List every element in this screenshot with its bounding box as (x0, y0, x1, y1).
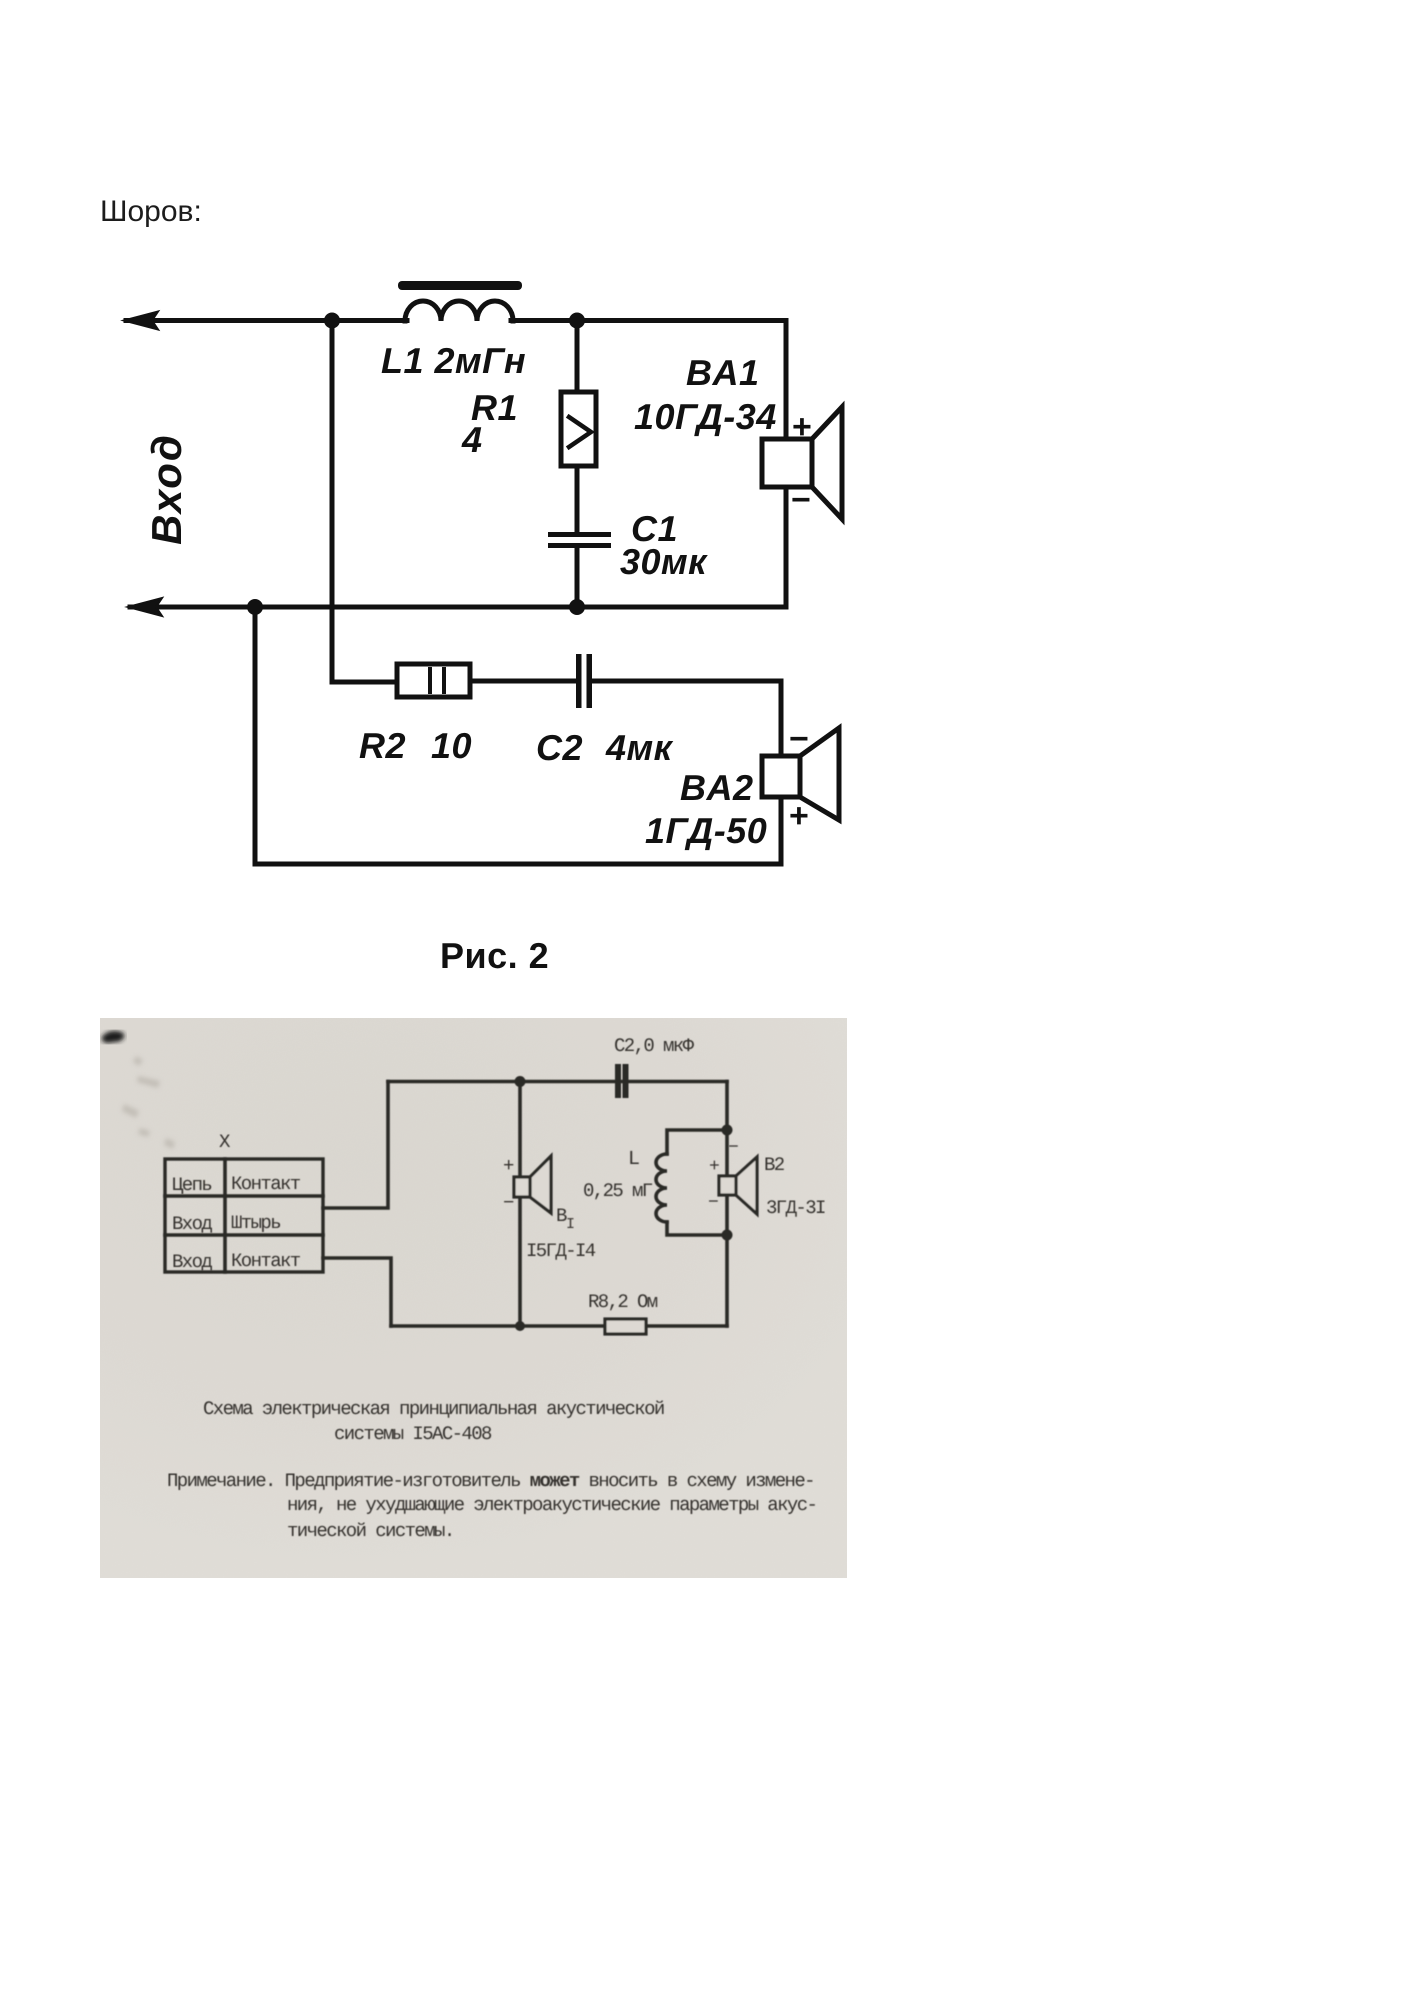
wire R2 to C2 (470, 679, 576, 684)
svg-text:−: − (728, 1138, 738, 1158)
stain smudges (122, 1056, 175, 1149)
resistor R2 body (397, 664, 470, 697)
svg-text:Вход: Вход (143, 433, 190, 545)
svg-text:системы I5АС-408: системы I5АС-408 (334, 1423, 492, 1445)
wire bottom input line (130, 605, 786, 610)
svg-text:B2: B2 (764, 1154, 785, 1176)
node junction dot bottom B1 (515, 1321, 525, 1331)
svg-text:Контакт: Контакт (231, 1173, 301, 1195)
loudspeaker BA1 body (762, 439, 812, 487)
wire top bus (388, 1080, 727, 1084)
connector table X outer (165, 1159, 323, 1272)
loudspeaker B1 horn (530, 1156, 551, 1213)
inductor L winding (656, 1154, 667, 1222)
svg-text:Вход: Вход (172, 1251, 212, 1273)
schematic 1: crossover Рис. 2 (100, 270, 870, 980)
wire bottom bus (391, 1324, 605, 1328)
svg-text:Схема электрическая принципиал: Схема электрическая принципиальная акуст… (203, 1398, 664, 1420)
wire BA2 right vertical (779, 681, 784, 864)
svg-text:Вход: Вход (172, 1213, 212, 1235)
svg-text:3ГД-3I: 3ГД-3I (766, 1197, 825, 1219)
wire B1 vertical (518, 1082, 522, 1327)
loudspeaker BA2 body (762, 756, 800, 797)
svg-text:+: + (709, 1157, 719, 1177)
resistor R8,2 body (605, 1319, 646, 1334)
svg-text:I: I (566, 1216, 574, 1233)
connector table column divider (223, 1159, 227, 1272)
wire right vertical (725, 1082, 729, 1327)
svg-text:L1 2мГн: L1 2мГн (381, 340, 526, 381)
svg-text:L: L (628, 1148, 639, 1171)
node junction dot inductor bottom (722, 1230, 733, 1241)
svg-text:30мк: 30мк (620, 541, 708, 582)
wire bottom bus right of R (646, 1324, 727, 1328)
capacitor C2,0 plates (615, 1064, 621, 1098)
svg-text:R8,2 Ом: R8,2 Ом (588, 1291, 658, 1313)
svg-text:C2: C2 (536, 727, 583, 768)
node junction dot bottom-left (247, 599, 263, 615)
wire lower branch from left vertical to R2 (332, 680, 397, 685)
svg-text:10ГД-34: 10ГД-34 (634, 396, 777, 437)
svg-text:BA2: BA2 (680, 767, 754, 808)
wire left lower riser from connector contact row (323, 1258, 391, 1326)
wire bottom return line (255, 862, 781, 867)
svg-text:тической системы.: тической системы. (287, 1520, 454, 1542)
node input top arrow (124, 312, 158, 330)
node junction dot at B1 top (515, 1076, 526, 1087)
heading text (100, 197, 202, 227)
node junction dot inductor top (722, 1125, 733, 1136)
loudspeaker B2 horn (736, 1157, 757, 1214)
node junction dot bottom-center (569, 599, 585, 615)
svg-text:ния, не ухудшающие электроакус: ния, не ухудшающие электроакустические п… (287, 1494, 816, 1516)
svg-text:Рис. 2: Рис. 2 (440, 935, 549, 976)
svg-text:1ГД-50: 1ГД-50 (645, 810, 767, 851)
svg-text:−: − (708, 1193, 718, 1213)
svg-text:R2: R2 (359, 725, 406, 766)
svg-text:+: + (792, 408, 812, 446)
node junction dot top-center (569, 313, 585, 329)
svg-text:Контакт: Контакт (231, 1250, 301, 1272)
svg-text:10: 10 (431, 725, 472, 766)
wire top input line left part (126, 318, 407, 323)
inductor L1 core bar (398, 281, 522, 290)
svg-text:C2,0 мкФ: C2,0 мкФ (614, 1035, 695, 1057)
svg-text:I5ГД-I4: I5ГД-I4 (526, 1240, 596, 1262)
svg-text:0,25 мГ: 0,25 мГ (583, 1180, 653, 1202)
svg-text:BA1: BA1 (686, 352, 760, 393)
wire left bottom vertical (253, 607, 258, 864)
svg-text:Примечание. Предприятие-изгото: Примечание. Предприятие-изготовитель мож… (167, 1470, 814, 1492)
loudspeaker BA1 horn (812, 407, 842, 519)
wire right side of BA1 loop (784, 321, 789, 608)
wire C2 to BA2 (592, 679, 781, 684)
wire C1 to bottom (575, 548, 580, 607)
svg-text:Цепь: Цепь (172, 1174, 211, 1196)
capacitor C1 plates (548, 532, 611, 537)
connector table row line 1 (165, 1194, 323, 1198)
wire R1 to C1 (575, 466, 580, 532)
photo background (100, 1018, 847, 1578)
svg-text:+: + (503, 1155, 514, 1177)
resistor R1 chevron mark (569, 417, 591, 447)
svg-text:4мк: 4мк (605, 727, 674, 768)
svg-text:+: + (789, 797, 809, 835)
wire left riser from connector pin row (323, 1082, 388, 1209)
loudspeaker BA2 horn (800, 728, 839, 820)
stain ink blob top-left (102, 1031, 125, 1043)
resistor R2 inner ticks (428, 669, 432, 692)
loudspeaker B1 body (514, 1177, 530, 1197)
capacitor C2 plates (576, 654, 582, 708)
loudspeaker B2 body (719, 1176, 736, 1195)
node junction dot top-left (324, 313, 340, 329)
inductor L branch bottom (667, 1222, 727, 1235)
schematic 2: scanned photo 15АС-408 (100, 1018, 847, 1578)
wire from node to R1 (575, 321, 580, 393)
connector table row line 2 (165, 1233, 323, 1237)
node input bottom arrow (128, 598, 162, 616)
inductor L branch top (667, 1130, 727, 1154)
wire left branch vertical (to R2 row) (330, 321, 335, 683)
inductor L1 winding (405, 301, 513, 321)
resistor R1 body (561, 392, 596, 466)
svg-text:4: 4 (461, 419, 483, 460)
wire top input line right part (511, 318, 786, 323)
svg-text:−: − (503, 1192, 514, 1214)
svg-text:−: − (789, 720, 809, 758)
svg-text:−: − (791, 481, 811, 519)
svg-text:Штырь: Штырь (231, 1212, 280, 1234)
